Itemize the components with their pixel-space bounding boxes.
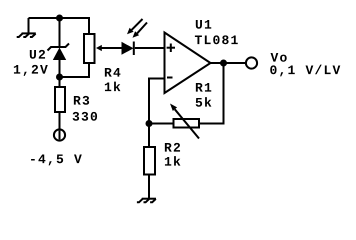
wire zener anode to junction <box>59 59 61 86</box>
node junction (zener/R3/R4 bottom) <box>56 74 63 81</box>
wire junction to R4 bottom <box>60 63 90 77</box>
wire R2 bottom to ground <box>148 176 150 199</box>
node junction (R1/R2/inverting input) <box>146 120 153 127</box>
label Vo <box>196 83 211 92</box>
terminal Vo <box>246 57 257 68</box>
wire photodiode anode to op-amp + input <box>135 47 165 49</box>
light arrow 2 <box>133 23 148 38</box>
value 0,1 V/LV <box>196 97 212 107</box>
label R4 <box>105 68 121 77</box>
photodiode D1 <box>122 42 134 56</box>
value 1k <box>165 156 181 165</box>
zener diode U2 <box>48 44 70 61</box>
terminal -4,5V supply pin <box>54 129 65 140</box>
value 1k <box>105 82 121 91</box>
ground GND2 (bottom chassis ground) <box>137 199 156 203</box>
resistor R3 <box>55 87 65 112</box>
label -4,5 V <box>31 155 82 166</box>
wire junction to R2 top <box>148 124 150 147</box>
value 5k <box>270 65 340 77</box>
ground GND1 (top-left chassis ground) <box>17 18 36 37</box>
wire R1 right to output node <box>200 63 224 124</box>
wire zener cathode stub <box>59 18 61 47</box>
wire junction to R1 left <box>149 123 173 125</box>
label U1 <box>196 20 211 29</box>
node junction (output/feedback) <box>220 60 227 67</box>
wire top horizontal from GND1 to R4 top <box>29 18 90 34</box>
wire - input feedback loop <box>149 79 165 125</box>
resistor R2 <box>144 147 155 175</box>
part TL081 <box>195 35 238 44</box>
label R2 <box>165 143 180 152</box>
resistor R1 (trimmer body) <box>174 119 200 128</box>
R1 trimmer diagonal arrow <box>170 104 199 139</box>
value 330 <box>73 112 97 121</box>
resistor R4 (potentiometer body) <box>84 34 95 63</box>
op-amp U1 <box>165 33 211 94</box>
value 1,2V <box>14 65 48 76</box>
wire op-amp output to Vo terminal <box>211 62 246 64</box>
R4 wiper arrow <box>96 45 122 51</box>
wire R3 to supply terminal <box>59 113 61 130</box>
label U2 <box>30 50 45 59</box>
label R3 <box>74 96 89 105</box>
light arrow 1 <box>127 19 143 34</box>
label R1 <box>271 53 287 62</box>
node junction top (zener tap) <box>56 15 63 22</box>
